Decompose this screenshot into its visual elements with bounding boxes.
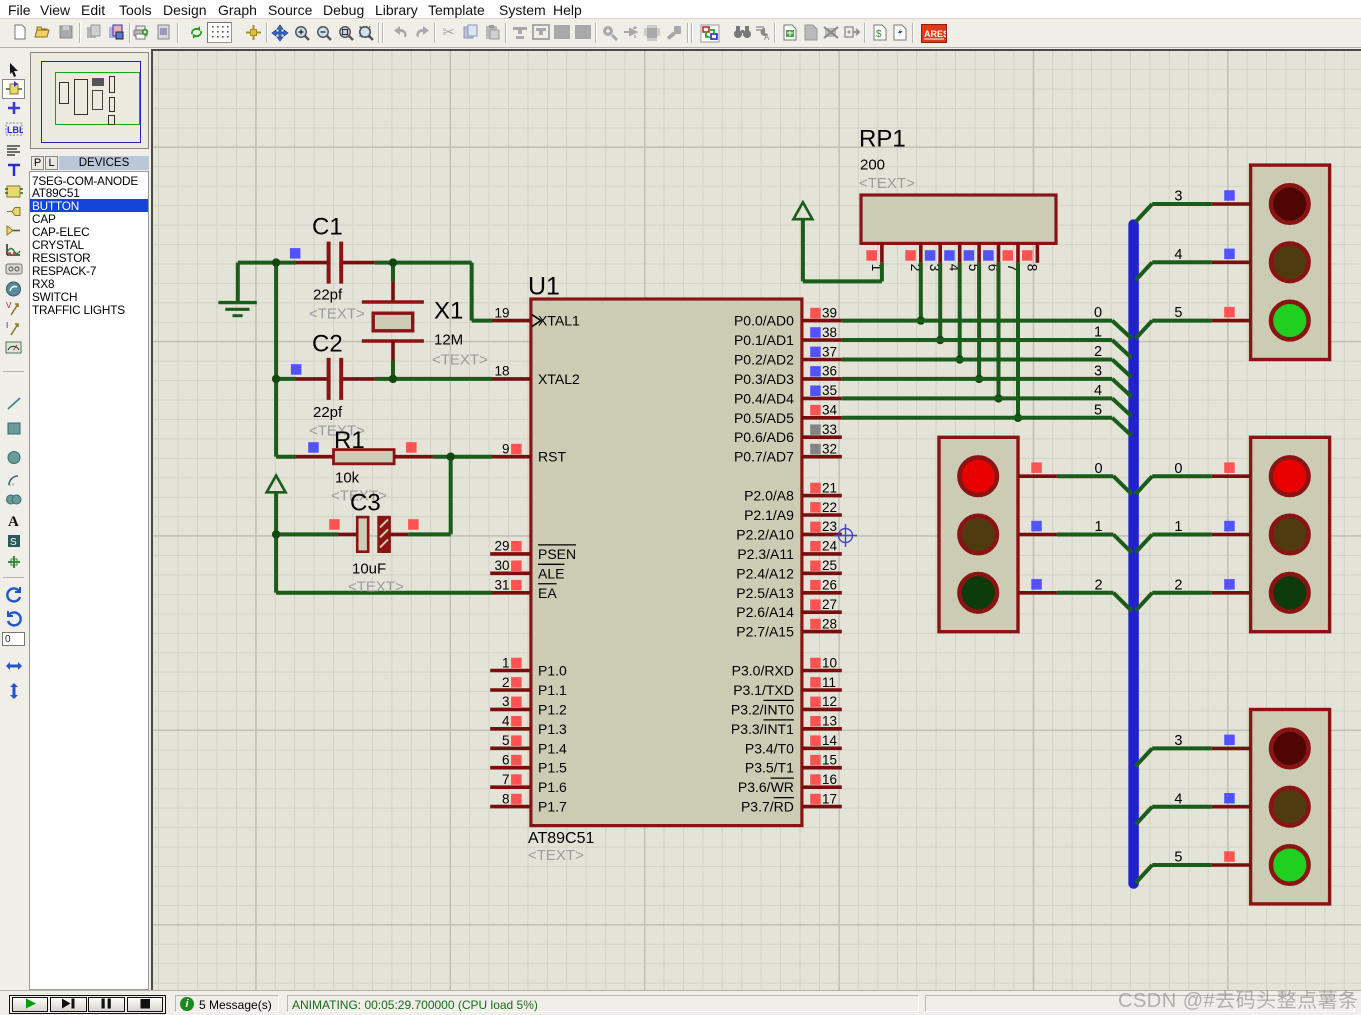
svg-text:P3.2/INT0: P3.2/INT0	[731, 701, 794, 717]
svg-text:P3.1/TXD: P3.1/TXD	[733, 682, 794, 698]
svg-text:1: 1	[1094, 325, 1102, 341]
svg-text:18: 18	[494, 364, 509, 379]
svg-text:10: 10	[822, 655, 837, 670]
svg-text:X1: X1	[434, 298, 463, 325]
svg-text:P2.6/A14: P2.6/A14	[736, 604, 794, 620]
svg-text:P1.2: P1.2	[538, 701, 567, 717]
svg-text:16: 16	[822, 772, 837, 787]
svg-text:3: 3	[502, 694, 510, 709]
svg-text:1: 1	[502, 655, 510, 670]
svg-text:ALE: ALE	[538, 565, 564, 581]
svg-text:4: 4	[1174, 791, 1182, 807]
svg-text:C1: C1	[312, 214, 343, 241]
svg-text:4: 4	[1174, 247, 1182, 263]
svg-text:33: 33	[822, 422, 837, 437]
svg-text:22pf: 22pf	[313, 404, 343, 421]
svg-text:LBL: LBL	[7, 125, 23, 135]
svg-text:P3.4/T0: P3.4/T0	[745, 740, 794, 756]
svg-text:P3.5/T1: P3.5/T1	[745, 760, 794, 776]
svg-text:29: 29	[494, 539, 509, 554]
svg-text:1: 1	[1095, 519, 1103, 535]
svg-text:P1.4: P1.4	[538, 740, 567, 756]
svg-text:5: 5	[502, 733, 510, 748]
svg-text:P2.3/A11: P2.3/A11	[737, 546, 794, 562]
svg-text:S: S	[10, 537, 17, 548]
svg-text:P2.0/A8: P2.0/A8	[744, 488, 794, 504]
svg-text:A: A	[8, 514, 19, 528]
svg-text:EA: EA	[538, 585, 557, 601]
svg-text:3: 3	[1174, 189, 1182, 205]
svg-text:1: 1	[1174, 519, 1182, 535]
svg-text:22: 22	[822, 500, 837, 515]
svg-text:0: 0	[1094, 305, 1102, 321]
svg-text:P1.5: P1.5	[538, 760, 567, 776]
svg-text:P0.7/AD7: P0.7/AD7	[734, 449, 794, 465]
svg-text:4: 4	[502, 714, 510, 729]
svg-text:32: 32	[822, 442, 837, 457]
svg-text:2: 2	[1174, 577, 1182, 593]
svg-text:30: 30	[494, 558, 509, 573]
svg-text:0: 0	[1095, 461, 1103, 477]
svg-text:RST: RST	[538, 449, 566, 465]
svg-text:5: 5	[1174, 850, 1182, 866]
svg-text:14: 14	[822, 733, 838, 748]
svg-text:35: 35	[822, 383, 837, 398]
svg-text:I: I	[6, 321, 8, 330]
svg-text:5: 5	[1174, 305, 1182, 321]
svg-text:<TEXT>: <TEXT>	[309, 306, 365, 323]
svg-text:38: 38	[822, 325, 837, 340]
svg-text:34: 34	[822, 403, 838, 418]
svg-text:2: 2	[502, 675, 510, 690]
svg-text:3: 3	[1094, 364, 1102, 380]
svg-text:15: 15	[822, 753, 837, 768]
svg-text:P1.7: P1.7	[538, 799, 567, 815]
svg-text:12: 12	[822, 694, 837, 709]
svg-text:P0.2/AD2: P0.2/AD2	[734, 352, 794, 368]
svg-text:11: 11	[822, 675, 836, 690]
svg-text:19: 19	[494, 305, 509, 320]
svg-text:P0.0/AD0: P0.0/AD0	[734, 313, 794, 329]
svg-text:10uF: 10uF	[352, 561, 386, 578]
svg-text:<TEXT>: <TEXT>	[432, 352, 488, 369]
svg-text:XTAL1: XTAL1	[538, 313, 580, 329]
svg-text:P3.3/INT1: P3.3/INT1	[731, 721, 794, 737]
svg-text:27: 27	[822, 597, 837, 612]
svg-text:P0.6/AD6: P0.6/AD6	[734, 429, 794, 445]
svg-text:P0.3/AD3: P0.3/AD3	[734, 371, 794, 387]
svg-text:P0.4/AD4: P0.4/AD4	[734, 390, 794, 406]
svg-text:0: 0	[1174, 461, 1182, 477]
svg-text:V: V	[6, 301, 12, 310]
svg-text:U1: U1	[528, 273, 560, 301]
svg-text:<TEXT>: <TEXT>	[348, 579, 404, 596]
svg-text:P2.1/A9: P2.1/A9	[744, 507, 794, 523]
svg-text:25: 25	[822, 558, 837, 573]
svg-text:XTAL2: XTAL2	[538, 371, 580, 387]
svg-text:7: 7	[502, 772, 510, 787]
svg-text:P2.2/A10: P2.2/A10	[736, 526, 794, 542]
svg-text:P2.4/A12: P2.4/A12	[736, 565, 794, 581]
svg-text:P1.6: P1.6	[538, 779, 567, 795]
svg-text:ARES: ARES	[924, 29, 946, 39]
svg-text:17: 17	[822, 791, 837, 806]
svg-text:13: 13	[822, 714, 837, 729]
svg-text:10k: 10k	[335, 470, 360, 487]
svg-text:36: 36	[822, 364, 837, 379]
svg-text:22pf: 22pf	[313, 287, 343, 304]
svg-text:PSEN: PSEN	[538, 546, 576, 562]
svg-text:P0.1/AD1: P0.1/AD1	[734, 332, 794, 348]
svg-text:RP1: RP1	[859, 126, 906, 153]
svg-text:21: 21	[822, 480, 837, 495]
svg-text:<TEXT>: <TEXT>	[528, 847, 584, 864]
svg-text:2: 2	[1095, 577, 1103, 593]
svg-text:2: 2	[1094, 344, 1102, 360]
svg-text:39: 39	[822, 305, 837, 320]
svg-text:4: 4	[1094, 383, 1102, 399]
svg-text:37: 37	[822, 344, 837, 359]
svg-text:P1.3: P1.3	[538, 721, 567, 737]
svg-text:31: 31	[494, 578, 509, 593]
svg-text:9: 9	[502, 442, 510, 457]
svg-text:R1: R1	[334, 427, 365, 454]
svg-text:P1.1: P1.1	[538, 682, 567, 698]
svg-text:5: 5	[1094, 402, 1102, 418]
svg-text:P0.5/AD5: P0.5/AD5	[734, 410, 794, 426]
svg-text:23: 23	[822, 519, 837, 534]
svg-text:P3.0/RXD: P3.0/RXD	[732, 663, 794, 679]
svg-text:26: 26	[822, 578, 837, 593]
svg-text:C2: C2	[312, 331, 343, 358]
svg-text:6: 6	[502, 753, 510, 768]
svg-text:P3.7/RD: P3.7/RD	[741, 799, 794, 815]
svg-text:$: $	[876, 29, 882, 40]
svg-text:<TEXT>: <TEXT>	[859, 175, 915, 192]
svg-text:8: 8	[1024, 264, 1039, 272]
svg-text:P1.0: P1.0	[538, 663, 567, 679]
svg-text:24: 24	[822, 539, 838, 554]
svg-text:200: 200	[860, 157, 885, 174]
svg-text:C3: C3	[350, 490, 381, 517]
svg-text:28: 28	[822, 616, 837, 631]
svg-text:P2.5/A13: P2.5/A13	[736, 585, 794, 601]
svg-text:AT89C51: AT89C51	[528, 830, 595, 847]
svg-text:8: 8	[502, 791, 510, 806]
svg-text:3: 3	[1174, 733, 1182, 749]
svg-text:P3.6/WR: P3.6/WR	[738, 779, 794, 795]
svg-text:P2.7/A15: P2.7/A15	[736, 624, 794, 640]
svg-text:A: A	[764, 33, 770, 41]
svg-text:12M: 12M	[434, 332, 463, 349]
